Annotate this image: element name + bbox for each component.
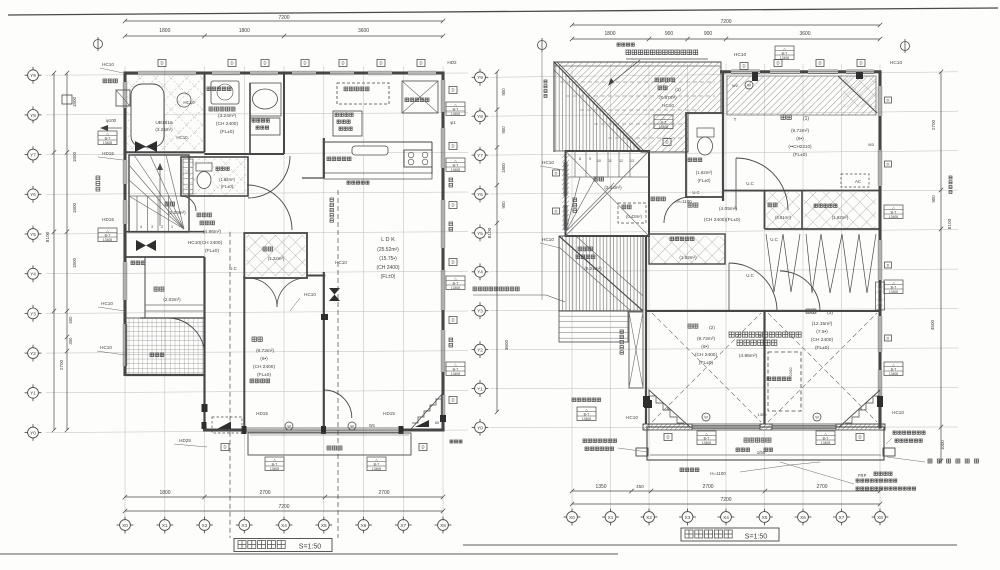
- svg-text:φ100: φ100: [106, 118, 117, 123]
- plan2 left wall small boxes: [553, 170, 560, 176]
- plan2 text closet2: [670, 237, 694, 241]
- svg-text:△: △: [892, 206, 895, 210]
- plan1 text toilet: [216, 167, 229, 170]
- svg-text:(2): (2): [709, 325, 715, 331]
- plan1 text hanging cabinet: [327, 157, 351, 161]
- svg-text:7200: 7200: [278, 504, 289, 510]
- svg-text:Y0: Y0: [477, 425, 483, 430]
- plan2 bedroom1 corner crosshatch: [843, 76, 876, 107]
- plan1 label water heater: [103, 79, 117, 83]
- svg-text:(1): (1): [803, 116, 809, 122]
- svg-text:D: D: [303, 61, 306, 66]
- plan2 roof2 horizontal band: [559, 311, 628, 342]
- svg-text:B-T: B-T: [453, 281, 460, 285]
- plan1 toilet fixture: [196, 163, 212, 171]
- plan1 text washer place: [207, 87, 231, 91]
- plan2 axis mark C top-left: [538, 38, 547, 52]
- svg-text:(4.05m²): (4.05m²): [719, 206, 738, 212]
- svg-text:△: △: [106, 132, 109, 136]
- svg-text:Y8: Y8: [30, 113, 36, 118]
- plan2 text bedroom2: [688, 324, 698, 328]
- svg-text:8: 8: [579, 157, 581, 161]
- plan2 text lower roof2: [578, 247, 592, 251]
- plan1 black post A: [202, 404, 208, 412]
- plan2 text attic storage center: [729, 332, 801, 337]
- plan2 text bedroom3: [806, 309, 816, 313]
- plan1 terrace label: [327, 446, 342, 450]
- svg-text:10: 10: [597, 159, 601, 163]
- svg-text:1800: 1800: [604, 31, 615, 37]
- svg-text:(CH 2400)(FL±0): (CH 2400)(FL±0): [704, 217, 741, 223]
- svg-text:1: 1: [171, 225, 173, 229]
- plan2 storage wall: [801, 191, 803, 230]
- plan1 bottom wall black posts: [242, 426, 247, 434]
- plan2 lower-roof2 hatch left: [559, 236, 643, 311]
- svg-text:(9.72m²): (9.72m²): [791, 128, 810, 134]
- svg-text:(3.24m²): (3.24m²): [218, 113, 237, 119]
- plan1 bowtie symbol lower: [136, 240, 146, 251]
- svg-text:8100: 8100: [487, 227, 493, 238]
- plan2 central wall: [764, 191, 766, 230]
- plan2 text kasagi: [928, 459, 979, 463]
- plan2 text toilet2: [688, 158, 702, 162]
- plan1 wall washroom divider: [249, 83, 251, 154]
- plan1 circled W marks bottom wall: [285, 422, 356, 430]
- plan1 window lines left wall: [122, 82, 124, 108]
- plan1 terrace stacks: [265, 457, 284, 471]
- svg-text:△: △: [106, 229, 109, 233]
- plan2 text insulation note left: [473, 287, 519, 291]
- plan2 text roof small top: [617, 43, 634, 46]
- svg-text:D: D: [555, 209, 558, 214]
- plan2 lower-roof vertical hatch left triangle: [554, 62, 641, 151]
- svg-text:Y6: Y6: [30, 192, 36, 197]
- plan1 washer pan: [211, 81, 239, 104]
- plan1 text handrail hall: [197, 213, 211, 217]
- svg-text:7200: 7200: [720, 497, 731, 503]
- svg-text:Y1: Y1: [30, 391, 36, 396]
- svg-text:D: D: [776, 61, 779, 66]
- svg-text:X1: X1: [608, 515, 614, 520]
- plan1 title box: [234, 539, 332, 552]
- plan1 grid vertical lines: [125, 66, 443, 522]
- svg-text:HC10(CH 2400): HC10(CH 2400): [188, 240, 223, 246]
- plan1 outer wall top: [124, 71, 138, 74]
- plan1 grid horizontal lines: [46, 73, 468, 433]
- svg-text:1800: 1800: [72, 257, 77, 268]
- plan2 closet folding doors: [766, 234, 800, 292]
- plan2 text closet3: [814, 204, 837, 207]
- svg-text:(7.5•): (7.5•): [816, 329, 828, 335]
- plan2 left axis extension line: [541, 52, 543, 300]
- svg-text:△: △: [454, 363, 457, 367]
- plan1 washitsu upper side wall: [307, 275, 325, 277]
- svg-text:HD15: HD15: [383, 411, 395, 416]
- svg-text:Y9: Y9: [477, 75, 483, 80]
- plan1 outer wall bottom: [203, 428, 246, 431]
- svg-text:X3: X3: [685, 515, 691, 520]
- svg-text:Y0: Y0: [30, 430, 36, 435]
- svg-text:1350: 1350: [758, 412, 768, 417]
- svg-text:HD15: HD15: [102, 151, 114, 156]
- svg-text:13408: 13408: [451, 286, 460, 290]
- plan2 title box: [681, 528, 779, 541]
- plan1 bowtie symbol upper: [135, 141, 146, 152]
- svg-text:(2.44m²): (2.44m²): [604, 185, 622, 190]
- svg-text:D: D: [887, 98, 890, 103]
- svg-text:(FL±0): (FL±0): [699, 360, 713, 366]
- svg-text:(FL±0): (FL±0): [220, 129, 234, 135]
- svg-text:HC10: HC10: [100, 345, 112, 350]
- svg-text:(9.72m²): (9.72m²): [256, 348, 275, 354]
- svg-text:△: △: [273, 458, 276, 462]
- svg-text:13408: 13408: [270, 467, 279, 471]
- svg-text:D: D: [858, 435, 861, 440]
- svg-text:φ1: φ1: [450, 120, 456, 125]
- svg-text:X2: X2: [646, 515, 652, 520]
- svg-text:N: N: [860, 407, 863, 411]
- svg-text:8100: 8100: [45, 231, 51, 242]
- plan1 genkan top wall: [125, 256, 205, 258]
- svg-text:B-T: B-T: [891, 367, 898, 371]
- svg-text:D: D: [859, 61, 862, 66]
- svg-text:B-T: B-T: [704, 436, 711, 440]
- svg-text:△: △: [375, 458, 378, 462]
- svg-text:D: D: [160, 61, 163, 66]
- svg-text:W: W: [747, 84, 751, 88]
- svg-text:(1.62m²): (1.62m²): [219, 177, 235, 182]
- plan2 storage lattice: [766, 192, 800, 229]
- svg-text:2200: 2200: [788, 367, 793, 377]
- svg-text:X7: X7: [839, 515, 845, 520]
- plan2 stair diagonal: [566, 151, 650, 236]
- svg-text:13408: 13408: [582, 417, 591, 421]
- svg-text:S=1:50: S=1:50: [299, 544, 321, 551]
- svg-text:U.C: U.C: [692, 190, 699, 195]
- plan2 text stairs2: [594, 177, 604, 181]
- svg-text:Y3: Y3: [30, 311, 36, 316]
- svg-text:13408: 13408: [889, 215, 898, 219]
- plan2 roof2 diagonal: [559, 236, 643, 311]
- svg-text:W: W: [704, 416, 708, 420]
- svg-text:B-T: B-T: [105, 136, 112, 140]
- plan1 D window labels top: [158, 60, 166, 67]
- scan border line bottom-right: [463, 544, 957, 546]
- svg-text:13408: 13408: [702, 441, 711, 445]
- svg-text:13408: 13408: [821, 441, 830, 445]
- svg-text:D: D: [451, 260, 454, 265]
- plan1 window lines right wall: [440, 80, 442, 112]
- svg-text:B-T: B-T: [782, 51, 789, 55]
- svg-text:2: 2: [161, 225, 163, 229]
- svg-text:D: D: [887, 162, 890, 167]
- svg-text:B-T: B-T: [891, 210, 898, 214]
- plan1 label stack B: [98, 228, 117, 242]
- plan2 flower box: [629, 312, 643, 388]
- svg-text:8100: 8100: [947, 218, 953, 229]
- svg-text:HC10: HC10: [304, 292, 316, 297]
- svg-text:U.C: U.C: [746, 181, 754, 186]
- svg-text:D: D: [341, 61, 344, 66]
- plan2 stair triangle right: [839, 390, 880, 427]
- svg-text:D: D: [451, 203, 454, 208]
- plan1 toilet room lattice: [182, 158, 247, 195]
- plan1 door arc washroom: [248, 156, 290, 198]
- plan1 stair room walls: [129, 155, 189, 232]
- plan2 bottom wall hatched: [643, 424, 692, 430]
- plan1 small box left wall: [62, 95, 72, 104]
- svg-text:B-T: B-T: [661, 120, 668, 124]
- svg-text:1800: 1800: [501, 163, 506, 173]
- svg-text:D: D: [555, 171, 558, 176]
- plan1 text porch: [150, 353, 164, 357]
- plan2 left dimension chain: [496, 72, 498, 412]
- plan1 wall washroom bottom: [205, 153, 285, 155]
- svg-text:D: D: [223, 445, 226, 450]
- svg-text:HC10: HC10: [626, 415, 638, 420]
- plan2 balcony drain right: [883, 448, 895, 456]
- svg-text:900: 900: [501, 88, 506, 96]
- svg-text:600: 600: [68, 316, 73, 324]
- plan1 label tesuri left: [96, 176, 100, 191]
- plan1 text genkan: [154, 287, 164, 291]
- plan1 axis mark C top-left: [94, 37, 103, 51]
- svg-text:(2.03m²): (2.03m²): [168, 210, 186, 215]
- plan2 text balcony rail: [680, 468, 699, 472]
- plan2 label stack above wall: [775, 46, 794, 60]
- svg-text:X7: X7: [400, 523, 406, 528]
- scan border line bottom-left: [0, 553, 618, 555]
- svg-text:1800: 1800: [72, 202, 77, 213]
- plan1 corner stair hatch bottom-right: [411, 394, 442, 429]
- svg-text:13408: 13408: [451, 372, 460, 376]
- plan2 right dimension chain: [940, 72, 942, 461]
- svg-text:B-T: B-T: [823, 436, 830, 440]
- plan1 sliding doors bottom wall: [246, 427, 322, 429]
- svg-text:900: 900: [704, 31, 713, 37]
- svg-text:7200: 7200: [720, 19, 731, 25]
- plan1 porch bottom wall: [125, 374, 205, 376]
- svg-text:(3): (3): [827, 310, 833, 316]
- svg-text:2700: 2700: [59, 359, 64, 370]
- svg-text:4500: 4500: [930, 319, 935, 330]
- svg-text:△: △: [662, 116, 665, 120]
- plan1 porch tile hatch: [126, 318, 204, 375]
- svg-text:S=1:50: S=1:50: [745, 534, 767, 541]
- svg-text:AC: AC: [855, 179, 861, 184]
- svg-text:1800: 1800: [159, 28, 170, 34]
- svg-text:900: 900: [501, 126, 506, 134]
- svg-text:X8: X8: [877, 515, 883, 520]
- svg-text:13408: 13408: [372, 467, 381, 471]
- svg-text:1800: 1800: [159, 490, 170, 496]
- svg-text:D: D: [742, 64, 745, 69]
- svg-text:X8: X8: [440, 523, 446, 528]
- plan1 left dimension chain: [53, 73, 55, 430]
- svg-text:300: 300: [68, 337, 73, 345]
- svg-text:D: D: [230, 61, 233, 66]
- plan2 roof board dashed lines: [560, 81, 715, 83]
- svg-text:△: △: [783, 47, 786, 51]
- svg-text:HC10: HC10: [101, 301, 113, 306]
- svg-text:1/50: 1/50: [757, 450, 766, 455]
- svg-text:HC10: HC10: [183, 100, 195, 105]
- plan1 washitsu sliding door arcs: [248, 278, 277, 307]
- plan2 void dashed box: [618, 203, 646, 223]
- svg-text:13408: 13408: [451, 112, 460, 116]
- svg-text:7200: 7200: [278, 15, 289, 21]
- svg-text:D: D: [451, 318, 454, 323]
- svg-text:X0: X0: [569, 515, 575, 520]
- svg-text:(FL±0): (FL±0): [257, 372, 271, 378]
- svg-text:B-T: B-T: [453, 107, 460, 111]
- svg-text:Y5: Y5: [30, 232, 36, 237]
- plan1 text oshiire: [263, 247, 273, 251]
- svg-text:1800: 1800: [72, 96, 77, 107]
- svg-text:13408: 13408: [451, 168, 460, 172]
- svg-text:HC10: HC10: [892, 410, 904, 415]
- plan1 stair treads: [136, 196, 138, 231]
- svg-text:△: △: [705, 432, 708, 436]
- svg-text:3600: 3600: [504, 339, 509, 350]
- svg-text:△: △: [454, 277, 457, 281]
- svg-text:900: 900: [665, 31, 674, 37]
- svg-text:(CH 2400): (CH 2400): [376, 265, 399, 271]
- svg-text:W1: W1: [369, 423, 376, 428]
- plan1 fridge space: [402, 81, 438, 113]
- plan2 roof ridge diagonal: [554, 62, 641, 151]
- svg-text:(CH 2400): (CH 2400): [695, 352, 718, 358]
- svg-text:1350: 1350: [595, 484, 606, 490]
- plan2 right wall labels: [885, 97, 892, 103]
- svg-text:X1: X1: [162, 523, 168, 528]
- plan2 balcony drain left: [636, 448, 648, 456]
- plan2 circled W labels: [702, 413, 710, 421]
- svg-text:3600: 3600: [799, 31, 810, 37]
- plan2 label stack roof1: [654, 115, 673, 129]
- svg-text:Y9: Y9: [30, 73, 36, 78]
- plan2 stair room walls: [566, 151, 650, 236]
- plan2 X axis circles: [564, 509, 581, 526]
- plan2 closet2 lattice: [651, 236, 725, 264]
- svg-text:Y4: Y4: [30, 272, 36, 277]
- svg-text:HD15: HD15: [102, 217, 114, 222]
- plan2 window lines stair left wall: [563, 162, 565, 196]
- plan2 lower-roof hatch top-left: [554, 62, 721, 152]
- plan1 bathtub: [131, 84, 164, 147]
- svg-text:Y2: Y2: [477, 348, 483, 353]
- plan2 text lower roof1: [655, 78, 675, 82]
- plan1 oshiire lattice hatch: [246, 235, 306, 276]
- plan1 dish shelf dashed: [337, 83, 389, 104]
- plan2 D labels top wall: [774, 60, 782, 67]
- plan1 vanity counter and sink: [250, 83, 281, 116]
- plan2 stair left wall hatch: [562, 155, 569, 232]
- svg-text:Y6: Y6: [477, 192, 483, 197]
- svg-text:HC10: HC10: [176, 135, 188, 140]
- svg-text:B-T: B-T: [891, 285, 898, 289]
- plan1 wall hall Y5: [125, 231, 205, 233]
- plan1 dashed gradient line B: [337, 190, 339, 538]
- svg-text:UB1616: UB1616: [155, 120, 173, 126]
- svg-text:△: △: [892, 363, 895, 367]
- plan2 circled W top: [745, 81, 753, 89]
- svg-text:△: △: [454, 159, 457, 163]
- plan1 wall washroom right: [283, 73, 285, 154]
- plan1 gradient line label: [330, 198, 333, 222]
- plan1 floor storage box LDK: [333, 111, 362, 136]
- plan2 outer wall top: [720, 70, 731, 73]
- plan2 left wall bedroom1: [722, 72, 724, 201]
- plan2 black post left: [643, 396, 650, 407]
- plan2 AC dashed box: [841, 174, 869, 187]
- plan2 door arc room3: [780, 271, 820, 311]
- plan1 corner note text: [450, 440, 462, 443]
- plan1 X axis circles: [117, 517, 134, 534]
- plan1 floor storage box washroom: [250, 118, 280, 135]
- svg-text:W3: W3: [868, 142, 875, 147]
- svg-text:(0.67m²): (0.67m²): [659, 95, 677, 100]
- plan1 door arc toilet: [181, 196, 196, 211]
- plan1 door arc LDK-washitsu: [324, 390, 352, 418]
- plan1 entrance arrow: [217, 422, 231, 430]
- svg-text:(6•): (6•): [260, 356, 268, 362]
- svg-text:12: 12: [619, 159, 623, 163]
- plan2 Y axis circles: [472, 419, 489, 436]
- plan2 closet row bottom wall: [765, 228, 881, 230]
- svg-text:11: 11: [608, 159, 612, 163]
- plan1 dashed gradient line A: [229, 232, 231, 538]
- svg-text:X0: X0: [122, 523, 128, 528]
- svg-text:D: D: [665, 140, 668, 145]
- svg-text:(1.22m²): (1.22m²): [268, 256, 285, 261]
- plan2 black post top: [752, 72, 758, 81]
- svg-text:Y1: Y1: [477, 386, 483, 391]
- svg-text:900: 900: [931, 195, 936, 203]
- svg-text:(12.15m²): (12.15m²): [812, 321, 833, 327]
- plan2 text void: [622, 205, 631, 209]
- svg-text:HC10: HC10: [102, 62, 114, 67]
- svg-text:Y7: Y7: [477, 153, 483, 158]
- plan2 stair triangle left: [649, 390, 690, 427]
- plan2 text overflow left: [583, 439, 617, 443]
- svg-text:13408: 13408: [103, 141, 112, 145]
- plan1 wall kitchen partition: [323, 138, 325, 178]
- svg-text:D: D: [263, 61, 266, 66]
- svg-text:U.C: U.C: [770, 237, 778, 242]
- svg-text:(5.24m²): (5.24m²): [584, 266, 602, 271]
- plan2 text tesuri2: [573, 198, 577, 212]
- svg-text:3600: 3600: [358, 28, 369, 34]
- plan1 text stairs: [165, 202, 175, 206]
- plan2 black mark top right wall: [856, 72, 863, 79]
- svg-text:(6•): (6•): [796, 136, 804, 142]
- plan2 ladder dashed box: [768, 352, 801, 411]
- svg-text:450: 450: [636, 484, 644, 489]
- plan2 flower box label: [620, 330, 623, 354]
- plan2 roof edge line: [554, 65, 721, 67]
- svg-text:Y7: Y7: [30, 153, 36, 158]
- svg-text:2700: 2700: [378, 490, 389, 496]
- plan2 rooms top wall: [646, 310, 880, 312]
- plan1 window lines top wall: [138, 70, 196, 72]
- svg-text:X4: X4: [281, 523, 287, 528]
- plan2 text attic storage left: [572, 398, 601, 402]
- plan1 wall bath bottom: [125, 151, 205, 153]
- plan2 balcony wall labels: [664, 434, 672, 441]
- svg-text:D: D: [451, 398, 454, 403]
- plan1 kitchen counter: [324, 141, 432, 143]
